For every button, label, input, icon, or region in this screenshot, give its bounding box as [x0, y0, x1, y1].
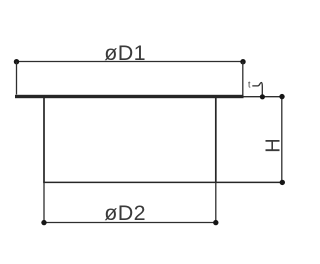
leader line t [252, 83, 262, 97]
dot D2 left [41, 220, 46, 225]
body left wall [43, 98, 45, 182]
body bottom edge [43, 181, 282, 183]
body right wall [215, 98, 217, 182]
dot D1 left [14, 59, 19, 64]
dimension line D2 [44, 222, 216, 224]
dot H top [279, 94, 284, 99]
dot D2 right [213, 220, 218, 225]
extension line H top [244, 96, 283, 98]
svg-text:øD1: øD1 [104, 41, 146, 65]
dot H bottom [280, 180, 285, 185]
extension line D2 left [43, 182, 45, 223]
extension line D1 right [242, 62, 244, 99]
dot D1 right [240, 59, 245, 64]
leader dot t [260, 94, 265, 99]
dimension line D1 [17, 61, 244, 63]
extension line D1 left [16, 62, 18, 95]
svg-text:H: H [262, 138, 284, 152]
flange [15, 95, 244, 98]
dimension line H [281, 97, 283, 183]
svg-text:øD2: øD2 [104, 201, 146, 225]
svg-text:t: t [248, 80, 251, 90]
extension line D2 right [215, 182, 217, 223]
